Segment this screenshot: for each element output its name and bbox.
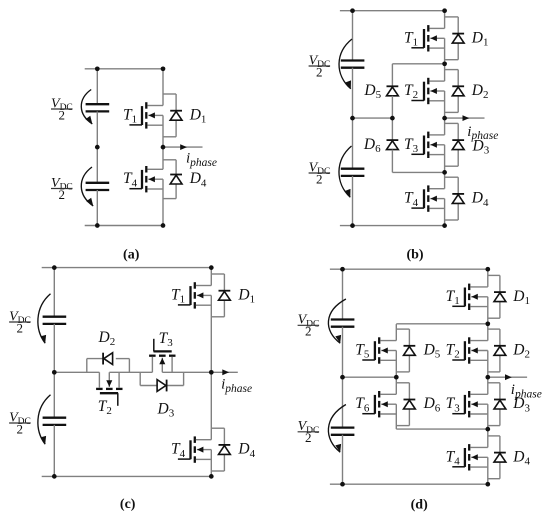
node: phase output (b) — [442, 116, 447, 121]
diode D4 bracket wires (b) — [445, 177, 459, 220]
i_phase output arrow (c) — [211, 369, 238, 375]
svg-text:T2: T2 — [446, 342, 460, 361]
svg-text:iphase: iphase — [511, 382, 542, 400]
wire: panel (b) left vertical middle — [352, 68, 354, 169]
wire: panel (a) left vertical upper — [96, 69, 98, 104]
svg-text:D1: D1 — [471, 29, 489, 48]
wire: T1 drain vertical (c) — [210, 268, 212, 286]
diode D4 — [170, 175, 182, 185]
diode D6 (b) — [387, 140, 399, 150]
wire: T6 source vertical (d) — [395, 404, 397, 429]
wire: panel (c) left vertical lower — [53, 425, 55, 477]
node: bottom-right (a) — [161, 223, 166, 228]
diode D6 bracket wires (d) — [396, 383, 409, 426]
wire: panel (c) bottom rail — [42, 475, 212, 477]
transistor T4 (b) — [411, 185, 444, 211]
diode D4 bracket wires — [163, 160, 176, 199]
node: T1-T2 junction (d) — [485, 321, 490, 326]
wire: T1 source to T2 drain (d) — [487, 297, 489, 341]
wire: panel (d) bottom rail — [330, 483, 488, 485]
transistor T4 (c) — [178, 436, 211, 462]
svg-text:T1: T1 — [446, 288, 460, 307]
wire: clamp top link (b) — [392, 63, 444, 65]
svg-text:2: 2 — [17, 320, 24, 335]
transistor T1 (d) — [452, 284, 488, 310]
wire: panel (b) top rail — [340, 10, 445, 12]
svg-text:T1: T1 — [171, 286, 185, 305]
transistor T4 (d) — [452, 444, 488, 470]
diode D6 (d) — [404, 400, 416, 410]
node: top-right (a) — [161, 66, 166, 71]
node: bottom-left (c) — [52, 474, 57, 479]
wire: clamp bottom link (d) — [396, 428, 488, 430]
svg-text:T4: T4 — [171, 441, 186, 460]
svg-text:2: 2 — [59, 187, 66, 202]
capacitor C1 (d) VDC/2 upper — [331, 320, 355, 327]
wire: T2 body to T3 drain lead (c) — [109, 371, 152, 373]
svg-text:D5: D5 — [363, 82, 381, 101]
capacitor C1 (c) VDC/2 upper — [43, 317, 67, 324]
wire: panel (c) left vertical upper — [53, 268, 55, 317]
transistor T1 (c) — [178, 282, 211, 308]
svg-text:D1: D1 — [189, 106, 207, 125]
diode D5 (d) — [404, 346, 416, 356]
svg-text:iphase: iphase — [221, 377, 252, 395]
wire: clamp top link (d) — [396, 323, 488, 325]
svg-text:D2: D2 — [512, 342, 530, 361]
diode D4 (b) — [452, 194, 464, 204]
wire: panel (b) left vertical upper — [352, 11, 354, 61]
capacitor C1 (b) VDC/2 upper — [341, 61, 365, 68]
node: top-left (a) — [95, 66, 100, 71]
node: top-right (c) — [209, 265, 214, 270]
svg-text:T4: T4 — [446, 448, 461, 467]
diode D4 bracket wires (c) — [211, 428, 224, 471]
transistor T1 (b) — [411, 25, 444, 51]
voltage arc upper (a) — [81, 90, 92, 124]
node: neutral left (b) — [350, 116, 355, 121]
capacitor C2 (b) VDC/2 lower — [341, 169, 365, 176]
svg-text:T3: T3 — [446, 395, 461, 414]
diode D2 (d) — [494, 346, 506, 356]
wire: T5 source to neutral (d) — [395, 351, 397, 378]
node: bottom-left (b) — [350, 223, 355, 228]
wire: T2 source to T3 drain (d) — [487, 351, 489, 395]
wire: T3 source to T4 drain (b) — [444, 145, 446, 189]
label VDC/2 lower (a) — [51, 176, 73, 202]
svg-text:2: 2 — [305, 430, 312, 445]
svg-text:T1: T1 — [123, 106, 137, 125]
diode D4 (c) — [219, 445, 231, 455]
wire: clamp vertical lower (b) — [391, 150, 393, 173]
wire: T4 source vertical (a) — [162, 179, 164, 225]
diode D5 bracket wires (d) — [396, 329, 409, 372]
diode D1 — [170, 111, 182, 121]
node: phase output (c) — [209, 370, 214, 375]
svg-text:D6: D6 — [423, 395, 441, 414]
node: top-left (c) — [52, 265, 57, 270]
voltage arc upper (b) — [339, 39, 352, 89]
transistor T6 (d) — [362, 391, 396, 417]
svg-text:2: 2 — [59, 107, 66, 122]
wire: T3 body to output node (c) — [162, 371, 211, 373]
wire: clamp vertical upper (b) — [391, 64, 393, 87]
node: clamp neutral (b) — [390, 116, 395, 121]
svg-text:D4: D4 — [512, 448, 530, 467]
diode D4 (d) — [494, 453, 506, 463]
voltage arc lower (c) — [38, 395, 51, 444]
label VDC/2 upper (a) — [51, 96, 73, 122]
svg-text:2: 2 — [316, 171, 323, 186]
wire: T2 source to T3 drain (b) — [444, 91, 446, 135]
node: T1-T2 junction (b) — [442, 61, 447, 66]
svg-text:D2: D2 — [98, 329, 116, 348]
wire: neutral link (b) — [353, 117, 393, 119]
diode D1 bracket wires (c) — [211, 274, 224, 317]
capacitor C2 (c) VDC/2 lower — [43, 418, 67, 425]
wire: panel (a) left vertical middle — [96, 111, 98, 182]
i_phase output arrow (a) — [163, 144, 203, 150]
node: neutral left (d) — [340, 375, 345, 380]
node: neutral (c) — [52, 370, 57, 375]
diode D1 bracket wires (d) — [488, 275, 500, 318]
svg-text:D4: D4 — [237, 441, 255, 460]
wire: T1 drain vertical (b) — [444, 11, 446, 29]
wire: T1 source to node to T4 drain (a) — [162, 115, 164, 169]
diode D4 bracket wires (d) — [488, 436, 500, 479]
svg-text:D6: D6 — [363, 136, 381, 155]
diode D1 bracket wires — [163, 94, 176, 137]
diode D3 (c) — [157, 380, 167, 392]
transistor T3 (b) — [411, 132, 444, 158]
svg-text:(d): (d) — [411, 498, 428, 513]
svg-text:2: 2 — [305, 324, 312, 339]
node: top-right (d) — [485, 267, 490, 272]
wire: T1 source to T2 drain (b) — [444, 38, 446, 81]
wire: T4 source vertical (c) — [210, 450, 212, 477]
transistor T2 (c) vertical — [96, 372, 122, 406]
node: T3-T4 junction (b) — [442, 170, 447, 175]
node: phase output (d) — [485, 375, 490, 380]
wire: neutral to T2 drain lead (c) — [54, 371, 99, 373]
node: top-left (d) — [340, 267, 345, 272]
svg-text:T4: T4 — [123, 170, 138, 189]
capacitor C1 (a) VDC/2 upper — [86, 104, 110, 111]
voltage arc lower (b) — [339, 146, 352, 197]
svg-text:D5: D5 — [423, 342, 441, 361]
svg-text:iphase: iphase — [467, 124, 498, 142]
node: clamp neutral (d) — [394, 375, 399, 380]
svg-text:D4: D4 — [189, 170, 207, 189]
diode D3 (d) — [494, 400, 506, 410]
wire: output node to T4 drain (c) — [210, 372, 212, 439]
transistor T1 — [129, 102, 163, 128]
diode D5 (b) — [387, 86, 399, 96]
diode D3 (b) — [452, 140, 464, 150]
wire: T1 drain vertical (d) — [487, 269, 489, 287]
svg-text:T1: T1 — [404, 29, 418, 48]
node: bottom-left (a) — [95, 223, 100, 228]
label VDC/2 lower (c) — [9, 410, 31, 436]
svg-text:T2: T2 — [98, 398, 112, 417]
diode D2 (c) — [103, 353, 113, 365]
wire: panel (d) left vertical middle — [342, 327, 344, 428]
voltage arc lower (d) — [328, 405, 346, 453]
transistor T2 (d) — [452, 337, 488, 363]
wire: neutral link (d) — [343, 376, 397, 378]
diode D1 (d) — [494, 292, 506, 302]
transistor T5 (d) — [362, 337, 396, 363]
label VDC/2 upper (c) — [9, 309, 31, 335]
node: top-left (b) — [350, 8, 355, 13]
svg-text:D2: D2 — [471, 82, 489, 101]
wire: T5 drain vertical (d) — [395, 324, 397, 341]
wire: panel (a) top rail — [85, 68, 163, 70]
diode D1 bracket wires (b) — [445, 17, 459, 60]
svg-text:T2: T2 — [404, 82, 418, 101]
wire: panel (c) top rail — [42, 267, 212, 269]
diode D2 bracket wires (c) — [86, 359, 88, 373]
diode D3 bracket wires (b) — [445, 123, 459, 166]
diode D2 (b) — [452, 86, 464, 96]
svg-text:T6: T6 — [355, 395, 370, 414]
node: bottom-left (d) — [340, 482, 345, 487]
wire: panel (d) left vertical upper — [342, 269, 344, 319]
wire: T1 source to output node (c) — [210, 295, 212, 372]
wire: T6 drain vertical (d) — [395, 377, 397, 394]
svg-text:T3: T3 — [159, 330, 174, 349]
svg-text:D1: D1 — [237, 286, 255, 305]
wire: clamp vertical middle (b) — [391, 96, 393, 140]
node: T3-T4 junction (d) — [485, 427, 490, 432]
wire: T4 source vertical (d) — [487, 457, 489, 484]
wire: panel (a) bottom rail — [85, 225, 163, 227]
voltage arc lower (a) — [81, 167, 93, 206]
wire: panel (d) left vertical lower — [342, 435, 344, 484]
i_phase output arrow (d) — [488, 374, 527, 380]
transistor T4 — [129, 166, 163, 192]
svg-text:(a): (a) — [123, 248, 140, 263]
svg-text:T4: T4 — [404, 190, 419, 209]
wire: panel (c) left vertical middle — [53, 324, 55, 418]
node: top-right (b) — [442, 8, 447, 13]
diode D3 bracket wires (c) — [139, 372, 141, 385]
svg-text:D3: D3 — [157, 401, 175, 420]
wire: panel (a) left vertical lower — [96, 190, 98, 226]
svg-text:(c): (c) — [120, 497, 136, 512]
transistor T3 (c) vertical — [149, 339, 175, 373]
node: phase output (a) — [161, 145, 166, 150]
svg-text:2: 2 — [17, 421, 24, 436]
diode D3 bracket wires (d) — [488, 383, 500, 426]
i_phase output arrow (b) — [445, 115, 485, 121]
wire: clamp bottom link (b) — [392, 171, 444, 173]
label VDC/2 lower (d) — [298, 419, 320, 445]
voltage arc upper (c) — [38, 294, 51, 343]
wire: panel (d) top rail — [330, 268, 488, 270]
wire: T4 source vertical (b) — [444, 199, 446, 226]
node: bottom-right (c) — [209, 474, 214, 479]
node: bottom-right (d) — [485, 482, 490, 487]
node: bottom-right (b) — [442, 223, 447, 228]
transistor T3 (d) — [452, 391, 488, 417]
svg-text:(b): (b) — [406, 248, 423, 263]
svg-text:T3: T3 — [404, 136, 419, 155]
transistor T2 (b) — [411, 78, 444, 104]
svg-text:iphase: iphase — [186, 151, 217, 169]
wire: T1 drain vertical (a) — [162, 69, 164, 106]
diode D1 (c) — [219, 291, 231, 301]
wire: T3 source to T4 drain (d) — [487, 404, 489, 447]
voltage arc upper (d) — [328, 299, 346, 343]
wire: panel (b) left vertical lower — [352, 176, 354, 226]
diode D2 bracket wires (d) — [488, 329, 500, 372]
svg-text:D1: D1 — [512, 288, 530, 307]
label VDC/2 upper (d) — [298, 313, 320, 339]
label VDC/2 upper (b) — [309, 53, 331, 79]
capacitor C2 (a) VDC/2 lower — [86, 183, 110, 190]
label VDC/2 lower (b) — [309, 160, 331, 186]
wire: panel (b) bottom rail — [340, 225, 445, 227]
capacitor C2 (d) VDC/2 lower — [331, 428, 355, 435]
diode D1 (b) — [452, 34, 464, 44]
node: capacitor midpoint (a) — [95, 145, 100, 150]
svg-text:D4: D4 — [471, 190, 489, 209]
svg-text:2: 2 — [316, 64, 323, 79]
diode D2 bracket wires (b) — [445, 70, 459, 113]
svg-text:T5: T5 — [355, 342, 370, 361]
